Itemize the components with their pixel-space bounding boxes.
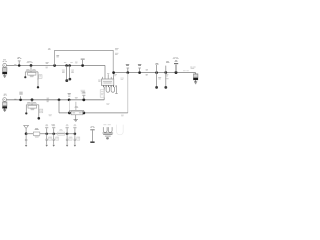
wire corner to speaker [195,73,197,74]
capacitor to ground 1 [45,125,52,147]
node J5 [68,64,71,67]
inline mark on rail2 [47,98,50,102]
capacitor C6 drop end [38,117,41,120]
capacitor drop below arrow node [25,134,27,147]
label above J2 [27,61,33,62]
node J14 [31,98,34,101]
faint text left [81,90,86,93]
faint texts below run [49,115,52,116]
node J3 feedback tap [53,64,56,67]
label R right of vert [56,56,59,57]
connector BU1 [2,60,7,77]
resistor R2 [28,73,36,76]
capacitor C3 drop [37,78,39,86]
wire drop J15 [58,100,60,113]
resistor R18 inline [33,129,40,138]
resistor R13 node [138,64,141,73]
node J13 with label box [19,92,22,102]
node J2 [30,64,33,67]
node J1 with stub R1 [17,58,21,67]
label near corner left [48,49,51,50]
node J19 [82,111,85,114]
capacitor to ground 4 [73,125,80,147]
capacitor drop J5 [69,66,71,78]
label texts above bracket B [27,101,37,104]
faint watermark [117,125,124,135]
tick on W1 [14,64,16,66]
switch stub S1a [155,63,161,89]
capacitor to ground 3 [66,125,73,147]
ground below P1 [74,115,78,122]
op-amp IC1 [98,73,116,88]
resistor R5 [28,105,37,108]
node J7 [112,71,115,74]
small inline marks [146,70,148,76]
resistor inline faint [58,130,65,136]
wire lower run [59,112,128,114]
node J15 [58,98,61,101]
switch stub S1b [164,61,169,89]
node J18 with plate [82,92,85,101]
speaker BU3 [193,74,198,84]
label box C6 [40,109,43,113]
potentiometer P1 [69,102,83,115]
capacitor C11 electrolytic [173,58,179,74]
wire W1 top rail [7,64,106,66]
capacitor C8 node [126,64,129,73]
wire rail2 [7,99,105,101]
wire drop to lower run [127,73,129,113]
wire pin1 to rail2 [103,87,105,100]
label above BU3 [190,67,195,68]
wire W2 right rail [114,72,196,74]
pin stubs top [102,74,111,79]
jumper loops with ground [103,125,114,140]
terminal dot B-left [25,112,27,114]
label box left of pin1 [100,90,104,97]
node J6 supply stub [81,64,84,67]
pin 5 flag [115,87,117,93]
terminal dot A-left [24,76,26,78]
wire corner into IC [104,65,106,79]
faint text above rail2 [75,96,78,99]
node J4 [65,64,68,67]
capacitor to ground 2 [52,125,59,147]
connector BU2 [2,94,7,112]
pin stubs bottom [104,85,116,87]
labels beside drops [62,70,65,72]
labels right of feedback drop [115,49,119,55]
wire bracket A [25,66,38,80]
wire feedback loop [55,50,114,72]
wire bracket B [26,100,39,118]
label texts above bracket A [26,68,36,71]
tick on rail2 [14,98,16,100]
label box C3 [39,75,42,79]
node J17 [68,112,71,115]
wire rail3 [26,133,75,135]
resistor drop J4 [66,66,68,80]
node J16 [68,98,71,101]
supply arrow node rail3 [24,125,29,135]
battery BAT1 [90,126,95,143]
faint label on wire right [183,70,189,72]
jumper loop 1 [106,87,110,92]
label near J3 [46,62,49,65]
jumper loop 2 [111,87,115,92]
